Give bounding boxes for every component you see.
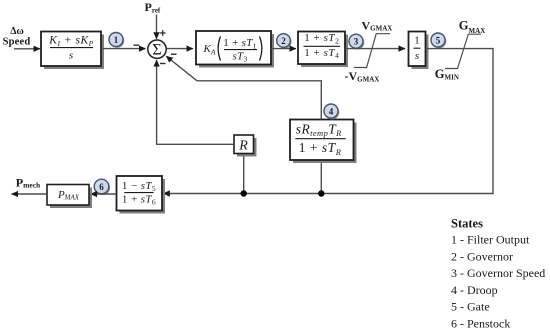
svg-text:1 - Filter Output: 1 - Filter Output (451, 233, 530, 247)
block integrator 1/s (409, 32, 429, 70)
svg-text:s: s (415, 50, 419, 62)
block droop sRtempTR/(1+sTR) (290, 120, 357, 164)
svg-text:1 + sTR: 1 + sTR (299, 140, 342, 157)
wire R tap from bottom wire up into R block (243, 154, 245, 194)
svg-text:KI + sKP: KI + sKP (48, 35, 93, 48)
wire PMAX to Pmech output (12, 193, 48, 195)
svg-text:5 - Gate: 5 - Gate (451, 300, 490, 314)
svg-text:Σ: Σ (152, 41, 161, 58)
node 3 state circle (349, 34, 364, 49)
block filter (KI + sKP)/s (41, 32, 104, 70)
svg-text:1 − sT5: 1 − sT5 (122, 180, 156, 193)
svg-text:4 - Droop: 4 - Droop (451, 283, 498, 297)
minus sign on R feedback (160, 63, 166, 65)
limiter GMAX/GMIN symbol (445, 34, 481, 68)
svg-text:s: s (69, 49, 73, 61)
wire lead-lag through limiter to integrator (345, 48, 405, 50)
svg-text:1 + sT1: 1 + sT1 (223, 37, 256, 50)
block penstock (1-sT5)/(1+sT6) (117, 176, 166, 214)
svg-text:Δω: Δω (10, 26, 24, 37)
svg-text:Speed: Speed (3, 37, 31, 48)
node 1 state circle (109, 33, 124, 48)
svg-text:4: 4 (329, 107, 334, 117)
wire governor to lead-lag block (271, 48, 296, 50)
svg-text:1 + sT6: 1 + sT6 (122, 193, 156, 206)
svg-text:1: 1 (114, 35, 119, 45)
node Pref label (145, 0, 161, 15)
wire summer to governor block (166, 48, 193, 50)
node 5 state circle (431, 33, 446, 48)
svg-text:1 + sT4: 1 + sT4 (304, 47, 339, 60)
block lead-lag (1+sT2)/(1+sT4) (298, 32, 348, 68)
minus sign on droop feedback (171, 53, 177, 55)
node States legend (451, 217, 545, 331)
svg-text:2 - Governor: 2 - Governor (451, 249, 513, 263)
wire droop tap down from bottom wire up into droop block (320, 161, 322, 194)
svg-text:1: 1 (414, 35, 420, 47)
svg-text:1 + sT2: 1 + sT2 (304, 32, 339, 45)
block R gain (234, 135, 257, 157)
minus sign on speed input to summer (134, 44, 140, 46)
wire Pref down into summer (156, 15, 158, 39)
svg-text:6 - Penstock: 6 - Penstock (451, 317, 510, 331)
svg-text:3: 3 (354, 37, 359, 47)
wire penstock to PMAX block (91, 193, 117, 195)
node 2 state circle (277, 34, 292, 49)
svg-text:3 - Governor Speed: 3 - Governor Speed (451, 266, 545, 280)
node Δω Speed input label (3, 26, 31, 48)
node 4 state circle (324, 104, 339, 119)
plus sign on Pref input (160, 30, 166, 36)
svg-text:6: 6 (99, 182, 104, 192)
wire gate output feedback: right then down then left into penstock block (163, 49, 493, 194)
summing junction (148, 40, 166, 58)
wire R feedback left and up into summer bottom (157, 60, 234, 144)
junction dot droop tap (318, 190, 324, 196)
wire filter output to summer (101, 48, 146, 50)
svg-text:2: 2 (281, 36, 286, 46)
wire speed input arrow into filter block (14, 48, 40, 50)
svg-text:R: R (238, 138, 248, 153)
block PMAX (47, 185, 92, 209)
limiter VGMAX symbol (354, 34, 390, 68)
node 6 state circle (94, 179, 110, 195)
wire droop feedback up and diagonally into summer (166, 56, 321, 119)
svg-text:States: States (451, 217, 483, 231)
svg-text:5: 5 (436, 36, 441, 46)
block governor KA((1+sT1)/(sT3)) (196, 31, 274, 68)
junction dot R tap (241, 190, 247, 196)
